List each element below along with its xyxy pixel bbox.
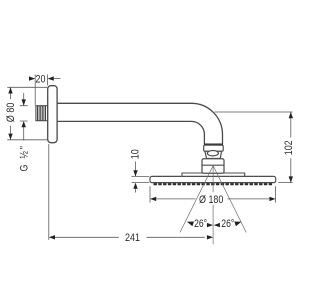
dimension 102	[214, 112, 295, 183]
shower arm	[57, 103, 222, 144]
head top plate	[182, 173, 245, 177]
dimension 26 deg right	[214, 218, 242, 230]
svg-text:102: 102	[283, 140, 295, 155]
spray nozzle band	[154, 183, 273, 185]
dimension G 1/2	[19, 93, 31, 171]
svg-text:26°: 26°	[194, 218, 207, 230]
dimension 26 deg left	[186, 218, 213, 230]
spray angle lines	[180, 166, 246, 245]
dimension 10	[129, 149, 149, 192]
dimension O 80	[5, 87, 47, 140]
dimension O 180	[150, 186, 276, 206]
svg-text:Ø 180: Ø 180	[199, 194, 224, 206]
svg-text:26°: 26°	[221, 218, 234, 230]
dimension 241	[49, 144, 213, 244]
shower head disc	[150, 176, 276, 182]
svg-text:G ½": G ½"	[19, 144, 31, 171]
thread nipple G1/2	[36, 106, 48, 121]
svg-text:20: 20	[36, 74, 46, 86]
head connector block	[202, 159, 224, 173]
ball	[207, 151, 218, 156]
arm nut	[204, 144, 224, 151]
svg-text:Ø 80: Ø 80	[5, 102, 17, 122]
dimension 20	[29, 74, 61, 106]
svg-text:241: 241	[125, 232, 140, 244]
ball joint cup	[205, 151, 222, 158]
wall flange escutcheon	[48, 86, 57, 143]
svg-text:10: 10	[129, 149, 141, 159]
